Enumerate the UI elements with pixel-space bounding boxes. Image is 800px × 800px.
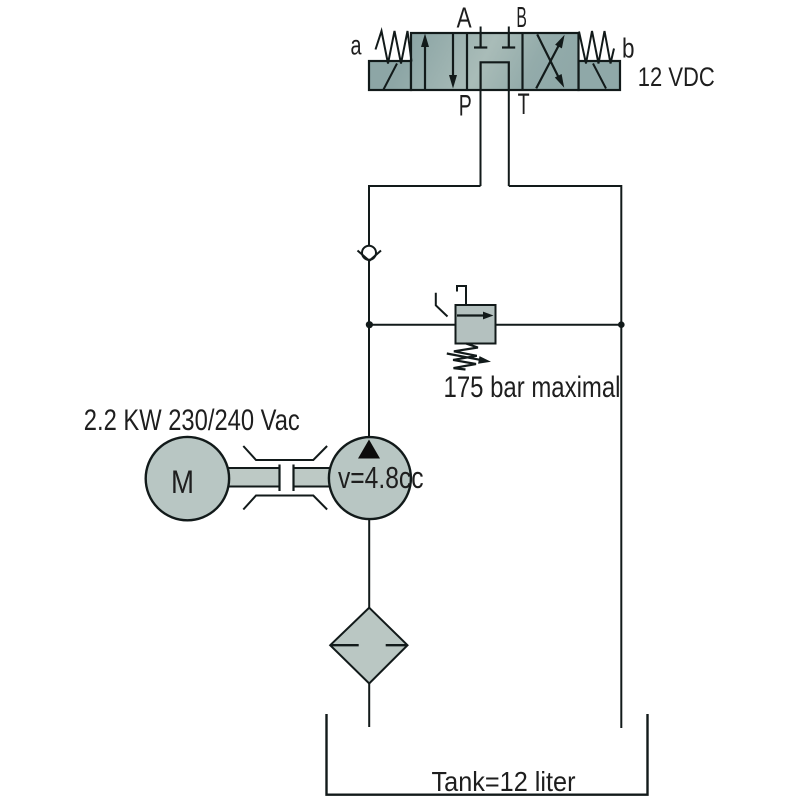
svg-text:2.2 KW 230/240 Vac: 2.2 KW 230/240 Vac	[84, 404, 300, 437]
wire filter to tank	[368, 684, 370, 728]
relief valve RV1 spring	[453, 343, 478, 369]
valve position divider lines	[467, 33, 523, 90]
valve V1 main 3-position body	[411, 33, 579, 90]
svg-text:12 VDC: 12 VDC	[638, 62, 715, 92]
svg-text:A: A	[457, 3, 472, 35]
pump shaft right	[294, 465, 331, 492]
center cell A blocked port	[474, 33, 487, 48]
solenoid b diagonal	[593, 64, 606, 89]
center cell P-T bypass U	[481, 62, 509, 90]
port A stub	[480, 27, 482, 34]
valve V1 body left solenoid box	[369, 61, 411, 90]
svg-text:P: P	[459, 90, 472, 123]
junction dot right	[618, 321, 625, 328]
wire check valve to pump	[368, 260, 370, 438]
right cell crossed arrows	[536, 34, 564, 88]
svg-text:T: T	[518, 88, 530, 121]
motor M1 circle	[146, 437, 229, 520]
spring right (solenoid b)	[579, 31, 614, 64]
relief valve RV1 flow arrow	[457, 312, 494, 320]
wire T horizontal to right branch	[509, 185, 622, 187]
relief valve RV1 adjuster line	[436, 293, 448, 317]
relief valve RV1 body	[456, 305, 496, 344]
filter F1 diamond	[330, 608, 407, 684]
motor shaft left	[226, 465, 280, 492]
solenoid a diagonal	[384, 64, 398, 90]
wire P down from valve	[480, 90, 482, 186]
center cell B blocked port	[502, 33, 515, 48]
svg-text:b: b	[622, 33, 635, 64]
coupling upper bracket	[243, 446, 327, 460]
wire T down from valve	[508, 90, 510, 186]
wire relief branch horizontal	[369, 324, 621, 326]
svg-text:B: B	[516, 2, 527, 34]
left cell down arrow (B to T)	[449, 34, 457, 89]
svg-text:M: M	[171, 464, 194, 500]
valve V1 body right solenoid box	[579, 61, 621, 90]
filter element dashes	[331, 644, 407, 646]
pump P1 circle	[329, 437, 411, 519]
wire P horizontal to left branch	[369, 185, 481, 187]
tank outline	[327, 714, 648, 795]
wire right branch down to tank	[620, 185, 622, 728]
coupling lower bracket	[243, 496, 327, 510]
wire pump to filter	[368, 519, 370, 608]
svg-text:Tank=12 liter: Tank=12 liter	[432, 766, 576, 797]
relief valve RV1 pilot line	[457, 286, 466, 305]
spring left (solenoid a)	[376, 31, 412, 64]
port B stub	[508, 27, 510, 34]
pump outlet triangle	[358, 440, 380, 459]
check valve CV1	[358, 246, 382, 261]
left cell up arrow (P to A)	[421, 34, 429, 90]
wire left branch down to check valve	[368, 185, 370, 246]
svg-text:175 bar maximal: 175 bar maximal	[444, 371, 621, 404]
svg-text:v=4.8cc: v=4.8cc	[338, 460, 424, 495]
svg-text:a: a	[351, 30, 362, 61]
relief valve RV1 spring arrow	[447, 354, 491, 364]
junction dot left	[366, 321, 373, 328]
